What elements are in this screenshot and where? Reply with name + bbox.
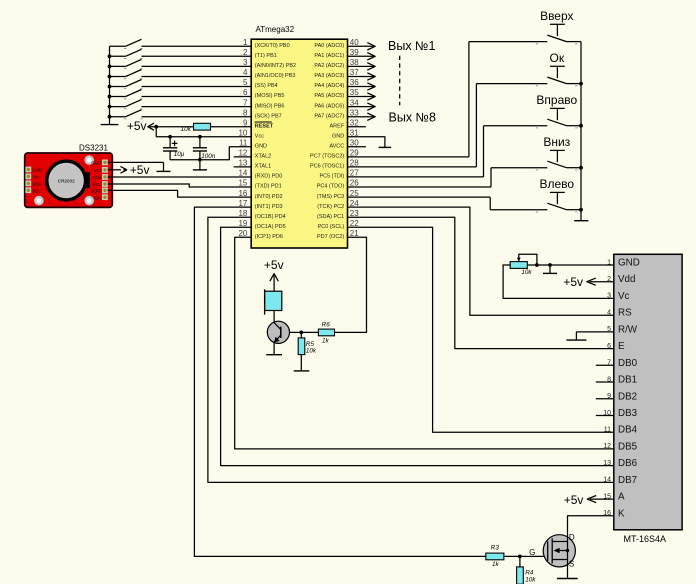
- junction bus/SA8: [108, 115, 112, 119]
- svg-text:19: 19: [238, 219, 247, 228]
- svg-text:Vcc: Vcc: [94, 168, 102, 173]
- power +5v arrow (LCD Vdd): [587, 278, 596, 285]
- svg-text:PC0 (SCL): PC0 (SCL): [318, 224, 345, 230]
- resistor R3 1k: [486, 553, 504, 560]
- LCD pin number 8: [607, 376, 611, 383]
- power +5v arrow (buzzer): [270, 274, 278, 282]
- pin label PA3 (ADC3): [314, 73, 344, 79]
- wire pin 29 to button 1: [348, 42, 548, 157]
- pin number 1 (U1): [243, 38, 248, 47]
- LCD pin label DB6: [618, 458, 638, 469]
- wire Q1 emitter to ground: [273, 342, 275, 355]
- pin number 11 (U1): [239, 139, 248, 148]
- LCD pin label DB5: [618, 441, 638, 452]
- LCD pin number 2: [607, 276, 611, 283]
- svg-text:SCL: SCL: [93, 182, 102, 187]
- junction bus/SA6: [108, 95, 112, 99]
- pin number 40 (U1): [350, 38, 359, 47]
- resistor R4 10k: [517, 556, 524, 584]
- wire XTAL1 stub pin 13: [234, 166, 252, 168]
- wire output pin 40: [348, 45, 375, 47]
- svg-text:4: 4: [607, 310, 611, 317]
- svg-text:14: 14: [238, 169, 247, 178]
- pin label PA5 (ADC5): [314, 93, 344, 99]
- wire switch SA2 to pin 2: [142, 55, 252, 57]
- button SB5 &#1042;&#1083;&#1077;&#1074;&#1086;: [536, 192, 581, 212]
- pin label PC7 (TOSC2): [310, 154, 344, 160]
- wire output pin 38: [348, 65, 375, 67]
- pin label (SCK) PB7: [255, 113, 282, 119]
- LCD pin label DB1: [618, 375, 637, 386]
- LCD pin label DB4: [618, 425, 638, 436]
- pin label (OC1B) PD4: [255, 214, 286, 220]
- wire output pin 34: [348, 106, 375, 108]
- svg-text:RS: RS: [618, 308, 632, 319]
- switch SA8 (matrix switch to pin 8): [110, 110, 143, 119]
- wire +5v to RESET pin 9: [150, 126, 252, 128]
- svg-text:RESET: RESET: [255, 123, 274, 129]
- power +5v arrow (RESET): [148, 123, 154, 130]
- wire R5 to ground: [300, 355, 302, 371]
- svg-text:1k: 1k: [492, 561, 500, 568]
- svg-text:17: 17: [238, 199, 247, 208]
- svg-text:SCL: SCL: [32, 188, 41, 193]
- wire LCD R/W pin 5 to ground: [576, 332, 613, 340]
- button SB3 &#1042;&#1087;&#1088;&#1072;&#1074;&#1086;: [536, 108, 581, 128]
- svg-text:37: 37: [350, 68, 359, 77]
- arrow output pin 39: [367, 53, 375, 60]
- pin label PA7 (ADC7): [314, 113, 344, 119]
- wire pin 25 to button 5: [348, 197, 548, 210]
- svg-text:Vcc: Vcc: [255, 133, 264, 139]
- svg-text:CR2032: CR2032: [58, 178, 75, 183]
- svg-text:S: S: [569, 560, 574, 569]
- wire +5v node down to Vcc line: [155, 127, 157, 137]
- svg-text:PC5 (TDI): PC5 (TDI): [319, 174, 344, 180]
- svg-text:35: 35: [350, 88, 359, 97]
- pin label (ICP1) PD6: [255, 234, 283, 240]
- svg-text:Vc: Vc: [618, 291, 630, 302]
- label MT-16S4A: [624, 534, 667, 544]
- pin number 8 (U1): [243, 108, 248, 117]
- label R5: [306, 341, 315, 348]
- svg-text:R6: R6: [322, 322, 331, 329]
- wire pin 22 to LCD DB4: [348, 227, 614, 432]
- svg-text:AREF: AREF: [330, 123, 345, 129]
- pin number 21 (U1): [350, 229, 359, 238]
- svg-text:10k: 10k: [181, 126, 192, 133]
- pin label RESET: [255, 122, 274, 129]
- svg-text:PC6 (TOSC1): PC6 (TOSC1): [310, 164, 344, 170]
- wire Vcc line to pin 10: [156, 136, 251, 138]
- pin number 9 (U1): [243, 118, 248, 127]
- svg-text:(SCK) PB7: (SCK) PB7: [255, 113, 282, 119]
- LCD pin label K: [618, 508, 625, 519]
- capacitor C2 100n: [193, 137, 207, 160]
- label 1k for R3: [492, 561, 500, 568]
- LCD pin label DB2: [618, 391, 637, 402]
- wire pin 21 to R6: [335, 237, 367, 332]
- ground DS3231: [157, 170, 171, 172]
- pin number 25 (U1): [350, 189, 359, 198]
- svg-text:(TCK) PC2: (TCK) PC2: [317, 204, 344, 210]
- svg-text:(TXD) PD1: (TXD) PD1: [255, 184, 282, 190]
- label 10k for R4: [525, 577, 536, 584]
- svg-text:PC4 (TDO): PC4 (TDO): [317, 184, 345, 190]
- pin label (MISO) PB6: [255, 103, 285, 109]
- svg-text:PA2 (ADC2): PA2 (ADC2): [314, 63, 344, 69]
- wire switch SA4 to pin 4: [142, 76, 252, 78]
- pin number 28 (U1): [350, 159, 359, 168]
- svg-text:Вправо: Вправо: [536, 93, 577, 107]
- button SB2 &#1054;&#1082;: [536, 66, 581, 86]
- pin number 4 (U1): [243, 68, 248, 77]
- svg-text:PA5 (ADC5): PA5 (ADC5): [314, 93, 344, 99]
- svg-text:GND: GND: [618, 258, 640, 269]
- LCD pin number 3: [607, 293, 611, 300]
- arrow output pin 35: [367, 93, 375, 100]
- pin number 13 (U1): [238, 159, 247, 168]
- junction wiper tap: [535, 263, 539, 267]
- resistor R1 10k (reset pull-up): [194, 123, 211, 130]
- pin number 7 (U1): [243, 98, 248, 107]
- wire DS3231 SQW to pin 16: [108, 190, 252, 197]
- power +5v arrow (LCD A): [587, 496, 596, 503]
- svg-text:DB4: DB4: [618, 425, 638, 436]
- svg-text:29: 29: [350, 149, 359, 158]
- wire AVCC stub pin 30: [348, 146, 366, 148]
- wire pin 17 to R3 (backlight gate): [194, 207, 485, 556]
- transistor Q2 N-MOSFET: [543, 535, 575, 579]
- LCD module MT-16S4A body: [614, 254, 682, 530]
- pin number 32 (U1): [350, 118, 359, 127]
- svg-text:Vcc: Vcc: [32, 175, 40, 180]
- svg-text:PA3 (ADC3): PA3 (ADC3): [314, 73, 344, 79]
- pin label (AIN0/INT2) PB2: [255, 63, 296, 69]
- pad left SCL (DS3231): [25, 187, 41, 193]
- pad left SDa (DS3231): [25, 180, 41, 186]
- power +5v arrow (DS3231): [121, 166, 127, 173]
- arrow output pin 34: [367, 103, 375, 110]
- pin number 19 (U1): [238, 219, 247, 228]
- junction pot ground: [548, 263, 552, 267]
- power +5v label (RESET pull-up): [127, 119, 147, 133]
- wire switch SA7 to pin 7: [142, 106, 252, 108]
- svg-text:GND: GND: [255, 144, 267, 150]
- svg-text:Вниз: Вниз: [543, 135, 570, 149]
- svg-text:A: A: [618, 492, 625, 503]
- button SB4 &#1042;&#1085;&#1080;&#1079;: [536, 150, 581, 170]
- svg-text:+5v: +5v: [127, 119, 147, 133]
- label 10k for R1: [181, 126, 192, 133]
- ground C2: [193, 160, 207, 170]
- pin label PC5 (TDI): [319, 174, 344, 180]
- label R6: [322, 322, 331, 329]
- svg-text:R3: R3: [491, 545, 500, 552]
- mounting hole bottom-right: [86, 197, 93, 204]
- pin number 5 (U1): [243, 78, 248, 87]
- svg-text:PA4 (ADC4): PA4 (ADC4): [314, 83, 344, 89]
- wire pin 28 to button 2: [348, 84, 548, 167]
- pin number 33 (U1): [350, 108, 359, 117]
- pin label PC4 (TDO): [317, 184, 345, 190]
- pin label (TCK) PC2: [317, 204, 344, 210]
- svg-text:G: G: [529, 548, 535, 557]
- svg-text:32K: 32K: [93, 195, 101, 200]
- svg-text:20: 20: [238, 229, 247, 238]
- svg-text:Влево: Влево: [540, 177, 575, 191]
- svg-text:PD7 (OC2): PD7 (OC2): [317, 234, 344, 240]
- svg-text:10μ: 10μ: [174, 151, 185, 158]
- svg-text:33: 33: [350, 108, 359, 117]
- svg-text:+5v: +5v: [564, 493, 584, 507]
- svg-text:DB3: DB3: [618, 408, 638, 419]
- junction bus/SA7: [108, 105, 112, 109]
- label Vyh No8: [389, 111, 436, 125]
- svg-text:1k: 1k: [322, 337, 330, 344]
- svg-text:+5v: +5v: [264, 258, 284, 272]
- pin label AREF: [330, 123, 345, 129]
- pin number 27 (U1): [350, 169, 359, 178]
- junction bus/SA5: [108, 85, 112, 89]
- svg-text:(AIN1/OC0) PB3: (AIN1/OC0) PB3: [255, 73, 296, 79]
- label R4: [525, 569, 534, 576]
- switch SA2 (matrix switch to pin 2): [110, 49, 143, 58]
- svg-text:(RXD) PD0: (RXD) PD0: [255, 174, 283, 180]
- arrow output pin 38: [367, 63, 375, 70]
- label D (drain): [569, 533, 575, 542]
- svg-text:(INT1) PD3: (INT1) PD3: [255, 204, 283, 210]
- svg-text:32: 32: [350, 118, 359, 127]
- wire +5v to LCD Vdd pin 2: [590, 281, 614, 283]
- svg-text:11: 11: [604, 427, 611, 434]
- svg-text:Вых №8: Вых №8: [389, 111, 436, 125]
- arrow output pin 33: [367, 113, 375, 120]
- svg-text:MT-16S4A: MT-16S4A: [624, 534, 667, 544]
- svg-text:XTAL2: XTAL2: [255, 154, 271, 160]
- ground switch bus: [101, 124, 119, 126]
- wire LCD DB0 stub: [596, 364, 614, 366]
- pin label PA0 (ADC0): [314, 43, 344, 49]
- label button &#1042;&#1074;&#1077;&#1088;&#1093;: [540, 9, 573, 23]
- pin number 10 (U1): [238, 128, 247, 137]
- pin number 24 (U1): [350, 199, 359, 208]
- pin label PA4 (ADC4): [314, 83, 344, 89]
- pin number 23 (U1): [350, 209, 359, 218]
- ground LCD R/W: [566, 339, 586, 341]
- pin label (TMS) PC3: [317, 194, 345, 200]
- pin label GND: [332, 133, 344, 139]
- power +5v label (LCD A): [564, 493, 584, 507]
- LCD pin number 10: [603, 410, 611, 417]
- ground pin 31: [379, 146, 392, 148]
- pin label (SS) PB4: [255, 83, 278, 89]
- pin label PC6 (TOSC1): [310, 164, 344, 170]
- svg-text:(SDA) PC1: (SDA) PC1: [317, 214, 344, 220]
- wire buzzer to +5v: [273, 274, 275, 292]
- svg-text:GND: GND: [332, 133, 344, 139]
- pad right 32K (DS3231): [93, 194, 107, 200]
- pad right SDa (DS3231): [93, 174, 108, 180]
- svg-text:AVCC: AVCC: [329, 144, 344, 150]
- pin number 22 (U1): [350, 219, 359, 228]
- pad right Vcc (DS3231): [94, 167, 108, 173]
- label Vyh No1: [388, 39, 435, 53]
- wire pin 27 to button 3: [348, 126, 548, 177]
- pin number 3 (U1): [243, 58, 248, 67]
- wire GND pin 31: [348, 137, 385, 148]
- junction bus/SA3: [108, 65, 112, 69]
- LCD pin label RS: [618, 308, 632, 319]
- ground Q1 emitter: [266, 354, 282, 356]
- wire pin 19 to LCD DB6: [221, 227, 614, 465]
- wire switch SA8 to pin 8: [142, 116, 252, 118]
- wire pin 24 to LCD RS: [348, 207, 614, 315]
- pin label (XCK/T0) PB0: [255, 43, 290, 49]
- svg-text:25: 25: [350, 189, 359, 198]
- wire switch SA5 to pin 5: [142, 86, 252, 88]
- wire pin 18 to LCD DB7: [208, 217, 614, 482]
- svg-text:36: 36: [350, 78, 359, 87]
- capacitor C1 10u electrolytic: [163, 137, 177, 160]
- svg-text:11: 11: [239, 139, 248, 148]
- svg-text:6: 6: [243, 88, 248, 97]
- pad right SCL (DS3231): [93, 181, 108, 187]
- wire button bus: [580, 42, 582, 221]
- wire AREF stub pin 32: [348, 126, 366, 128]
- svg-text:(SS) PB4: (SS) PB4: [255, 83, 278, 89]
- pin number 16 (U1): [238, 189, 247, 198]
- svg-text:7: 7: [243, 98, 248, 107]
- svg-text:(AIN0/INT2) PB2: (AIN0/INT2) PB2: [255, 63, 296, 69]
- power +5v label (buzzer): [264, 258, 284, 272]
- wire pin 20 to LCD DB5: [235, 237, 614, 449]
- svg-text:(MOSI) PB5: (MOSI) PB5: [255, 93, 285, 99]
- pin number 18 (U1): [238, 209, 247, 218]
- wire DS3231 Vcc to +5v: [108, 169, 121, 171]
- svg-text:PC7 (TOSC2): PC7 (TOSC2): [310, 154, 344, 160]
- svg-text:30: 30: [350, 139, 359, 148]
- svg-text:(MISO) PB6: (MISO) PB6: [255, 103, 285, 109]
- svg-text:Вверх: Вверх: [540, 9, 573, 23]
- pin label (OC1A) PD5: [255, 224, 286, 230]
- svg-text:10: 10: [238, 128, 247, 137]
- svg-text:12: 12: [603, 443, 611, 450]
- svg-text:Vdd: Vdd: [618, 274, 635, 285]
- pin number 15 (U1): [238, 179, 247, 188]
- ground button bus: [574, 220, 588, 222]
- junction caps/ground: [198, 158, 202, 162]
- wire pot to LCD Vc pin 3: [503, 265, 614, 298]
- svg-text:Вых №1: Вых №1: [388, 39, 435, 53]
- pin label (T1) PB1: [255, 53, 277, 59]
- arrow output pin 37: [367, 73, 375, 80]
- resistor R5 10k: [298, 332, 305, 354]
- LCD pin number 9: [607, 393, 611, 400]
- pin label PD7 (OC2): [317, 234, 344, 240]
- pin number 12 (U1): [238, 149, 247, 158]
- svg-text:DB7: DB7: [618, 475, 637, 486]
- LCD pin label DB7: [618, 475, 637, 486]
- svg-text:21: 21: [350, 229, 359, 238]
- junction button bus: [579, 82, 583, 86]
- pin number 14 (U1): [238, 169, 247, 178]
- svg-text:(T1) PB1: (T1) PB1: [255, 53, 277, 59]
- wire XTAL2 stub pin 12: [234, 156, 252, 158]
- wire output pin 33: [348, 116, 375, 118]
- pin label PA6 (ADC6): [314, 103, 344, 109]
- pin number 35 (U1): [350, 88, 359, 97]
- junction bus/SA2: [108, 54, 112, 58]
- pin label GND: [255, 144, 267, 150]
- svg-text:R4: R4: [525, 569, 534, 576]
- svg-text:22: 22: [350, 219, 359, 228]
- switch SA7 (matrix switch to pin 7): [110, 100, 143, 109]
- LCD pin number 15: [603, 493, 611, 500]
- pin label (MOSI) PB5: [255, 93, 285, 99]
- wire Q1 collector to buzzer: [273, 311, 275, 323]
- arrow output pin 40: [367, 43, 375, 50]
- pin number 29 (U1): [350, 149, 359, 158]
- power +5v label (DS3231): [130, 163, 150, 177]
- arrow output pin 36: [367, 83, 375, 90]
- svg-text:10k: 10k: [521, 269, 532, 276]
- wire GND pin 11 to caps: [200, 147, 251, 160]
- LCD pin number 12: [603, 443, 611, 450]
- junction bus/SA4: [108, 75, 112, 79]
- label 1k for R6: [322, 337, 330, 344]
- LCD pin label R/W: [618, 324, 638, 335]
- pin number 38 (U1): [350, 58, 359, 67]
- wire output pin 36: [348, 86, 375, 88]
- svg-text:9: 9: [243, 118, 248, 127]
- svg-text:24: 24: [350, 199, 359, 208]
- junction base/R5: [299, 331, 303, 335]
- resistor R6 1k: [318, 329, 334, 336]
- switch SA5 (matrix switch to pin 5): [110, 80, 143, 89]
- wire LCD K pin 16 to drain: [568, 516, 614, 535]
- pin number 26 (U1): [350, 179, 359, 188]
- svg-text:39: 39: [350, 48, 359, 57]
- svg-text:13: 13: [238, 159, 247, 168]
- svg-text:SDa: SDa: [32, 181, 41, 186]
- wire pin 26 to button 4: [348, 168, 548, 187]
- svg-text:3: 3: [243, 58, 248, 67]
- pin number 37 (U1): [350, 68, 359, 77]
- wire output pin 35: [348, 96, 375, 98]
- svg-text:14: 14: [603, 477, 611, 484]
- svg-text:23: 23: [350, 209, 359, 218]
- svg-text:(ICP1) PD6: (ICP1) PD6: [255, 234, 283, 240]
- wire switch SA6 to pin 6: [142, 96, 252, 98]
- junction button bus: [579, 208, 583, 212]
- module DS3231 board: [25, 153, 113, 207]
- label G (gate): [529, 548, 535, 557]
- svg-text:31: 31: [350, 128, 359, 137]
- pad left Vcc (DS3231): [25, 174, 40, 180]
- LCD pin number 16: [603, 510, 611, 517]
- label ATmega32: [256, 25, 295, 34]
- svg-text:8: 8: [243, 108, 248, 117]
- mounting hole top-right: [86, 157, 93, 164]
- svg-text:DB5: DB5: [618, 441, 638, 452]
- LCD pin number 7: [607, 360, 611, 367]
- svg-text:+5v: +5v: [563, 275, 583, 289]
- label 10u for C1: [174, 151, 185, 158]
- label DS3231: [79, 144, 108, 153]
- LCD pin number 4: [607, 310, 611, 317]
- ground LCD pin 1: [543, 265, 557, 273]
